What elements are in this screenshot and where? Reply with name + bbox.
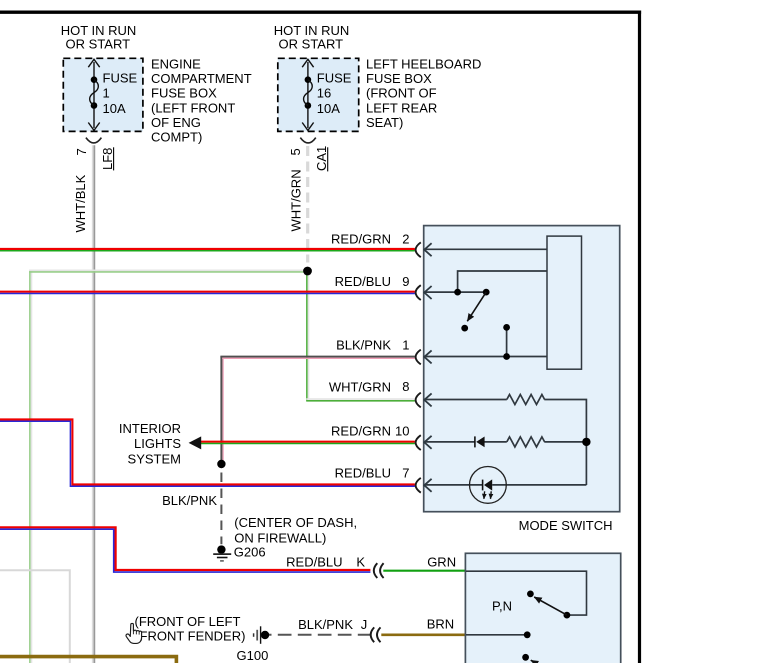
svg-text:FUSE: FUSE (317, 70, 352, 85)
svg-text:RED/BLU: RED/BLU (335, 466, 391, 481)
svg-text:WHT/GRN: WHT/GRN (329, 380, 391, 395)
svg-text:INTERIOR: INTERIOR (119, 421, 181, 436)
svg-text:LF8: LF8 (100, 148, 115, 170)
svg-text:MODE SWITCH: MODE SWITCH (519, 518, 613, 533)
svg-text:FUSE BOX: FUSE BOX (151, 86, 217, 101)
svg-text:G100: G100 (237, 648, 269, 663)
svg-text:RED/BLU: RED/BLU (335, 274, 391, 289)
svg-text:9: 9 (402, 274, 409, 289)
svg-text:WHT/GRN: WHT/GRN (289, 169, 304, 231)
svg-text:ON FIREWALL): ON FIREWALL) (234, 530, 326, 545)
svg-text:BRN: BRN (427, 617, 454, 632)
svg-text:16: 16 (317, 86, 331, 101)
svg-text:7: 7 (74, 148, 89, 155)
svg-text:(FRONT OF: (FRONT OF (366, 86, 437, 101)
svg-text:BLK/PNK: BLK/PNK (298, 617, 353, 632)
svg-text:(LEFT FRONT: (LEFT FRONT (151, 100, 235, 115)
svg-text:RED/BLU: RED/BLU (286, 555, 342, 570)
svg-text:OF ENG: OF ENG (151, 115, 201, 130)
svg-text:OR START: OR START (279, 37, 344, 52)
svg-text:COMPARTMENT: COMPARTMENT (151, 71, 252, 86)
svg-text:7: 7 (402, 466, 409, 481)
svg-text:OR START: OR START (66, 37, 131, 52)
svg-text:SEAT): SEAT) (366, 115, 403, 130)
svg-text:P,N: P,N (492, 599, 512, 614)
svg-text:RED/GRN: RED/GRN (331, 232, 391, 247)
svg-text:ENGINE: ENGINE (151, 57, 201, 72)
svg-text:FUSE BOX: FUSE BOX (366, 71, 432, 86)
svg-text:J: J (361, 617, 368, 632)
svg-text:K: K (356, 555, 365, 570)
svg-text:5: 5 (288, 148, 303, 155)
svg-text:WHT/BLK: WHT/BLK (73, 174, 88, 232)
svg-text:8: 8 (402, 379, 409, 394)
svg-text:LIGHTS: LIGHTS (134, 436, 181, 451)
svg-text:10: 10 (395, 424, 409, 439)
svg-text:(CENTER OF DASH,: (CENTER OF DASH, (234, 515, 357, 530)
svg-text:1: 1 (402, 338, 409, 353)
svg-text:LEFT REAR: LEFT REAR (366, 100, 437, 115)
svg-text:GRN: GRN (427, 555, 456, 570)
svg-text:G206: G206 (234, 545, 266, 560)
svg-text:FUSE: FUSE (103, 70, 138, 85)
svg-text:10A: 10A (317, 101, 340, 116)
svg-text:(FRONT OF LEFT: (FRONT OF LEFT (135, 614, 241, 629)
svg-text:BLK/PNK: BLK/PNK (336, 338, 391, 353)
svg-text:LEFT HEELBOARD: LEFT HEELBOARD (366, 57, 481, 72)
svg-text:FRONT FENDER): FRONT FENDER) (140, 628, 246, 643)
svg-text:CA1: CA1 (314, 146, 329, 171)
svg-text:SYSTEM: SYSTEM (128, 452, 181, 467)
svg-text:10A: 10A (103, 101, 126, 116)
svg-text:COMPT): COMPT) (151, 130, 202, 145)
svg-text:1: 1 (103, 86, 110, 101)
svg-text:RED/GRN: RED/GRN (331, 424, 391, 439)
svg-text:BLK/PNK: BLK/PNK (162, 493, 217, 508)
svg-text:2: 2 (402, 232, 409, 247)
